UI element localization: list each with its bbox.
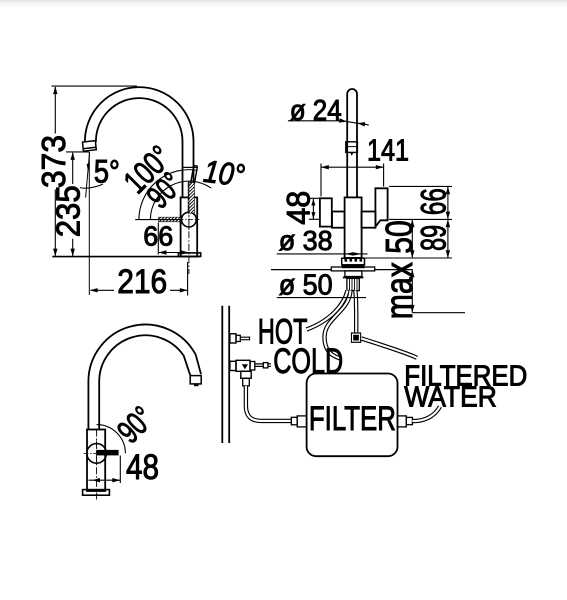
dim 216: arrow left bbox=[90, 288, 98, 292]
svg-text:48: 48 bbox=[126, 448, 159, 487]
front view: left arm neck bbox=[332, 212, 345, 228]
filter outlet fitting bbox=[398, 416, 407, 427]
front view: joint band midline bbox=[346, 146, 358, 148]
dim 235: extension tick top bbox=[66, 151, 89, 153]
right dims: extension line mid bbox=[389, 218, 452, 220]
dim o24: arrow right at tube left wall bbox=[339, 118, 347, 122]
bottom view: 90 degree arc bbox=[97, 425, 126, 454]
right dims: extension line bottom bbox=[365, 257, 452, 259]
bottom view: body bbox=[87, 430, 105, 492]
dim o38: underline leader bbox=[277, 253, 368, 255]
side view: lever horizontal position hatched bbox=[159, 217, 181, 222]
front view: swivel joint band bbox=[346, 142, 358, 153]
side view: handle ball joint bbox=[182, 212, 197, 227]
side view: 90 and 10 degree arc bbox=[150, 181, 211, 219]
dim 235: arrow up bbox=[71, 152, 75, 160]
dim 48 front: arrow up bbox=[311, 199, 315, 206]
side view: flow direction arrow bbox=[87, 164, 90, 173]
svg-text:WATER: WATER bbox=[404, 382, 497, 414]
bottom view: lever filled bbox=[97, 450, 119, 456]
svg-text:max 50: max 50 bbox=[379, 220, 421, 319]
side view: horizontal reference line bbox=[135, 219, 180, 221]
front view: left handle knob bbox=[320, 198, 332, 226]
cold tee body bbox=[236, 360, 250, 371]
dim o50: underline leader bbox=[277, 297, 366, 299]
side view: lever vertical position hatched bbox=[188, 183, 194, 213]
svg-text:COLD: COLD bbox=[273, 342, 343, 381]
dim 216: right extension line bbox=[187, 262, 189, 296]
front view: hose inner whites bbox=[307, 291, 348, 330]
dim o24: arrow left at tube right wall bbox=[357, 122, 365, 126]
filtered hose from connector bbox=[361, 339, 417, 358]
svg-text:ø 38: ø 38 bbox=[279, 225, 333, 256]
dim 373: extension tick top bbox=[52, 85, 137, 87]
svg-text:66: 66 bbox=[415, 188, 454, 215]
side view: tube joint tick bbox=[183, 166, 198, 168]
front view: aerator housing bbox=[342, 258, 365, 265]
side view: ball crosshair bbox=[179, 209, 200, 230]
cold valve nut on wall bbox=[230, 361, 236, 370]
svg-text:141: 141 bbox=[367, 133, 409, 168]
front view: escutcheon plate bbox=[331, 267, 374, 271]
dim 66: arrow left bbox=[159, 250, 167, 254]
side view: centerline axis bbox=[188, 181, 190, 274]
dim 141: arrow right bbox=[376, 165, 384, 169]
svg-text:10°: 10° bbox=[202, 153, 247, 194]
bottom view: base flange bbox=[83, 490, 110, 496]
front view: counter line right bbox=[375, 269, 413, 271]
svg-text:ø 50: ø 50 bbox=[279, 270, 333, 302]
front view: dark seal band bbox=[342, 265, 365, 268]
filter outlet hose bbox=[412, 407, 440, 422]
wall line left bbox=[221, 306, 223, 443]
svg-text:5°: 5° bbox=[94, 154, 120, 190]
front view: right arm neck bbox=[362, 212, 376, 228]
filter box bbox=[307, 374, 398, 457]
bottom view: ball crosshair bbox=[84, 440, 110, 466]
dim 66: extension line bbox=[157, 223, 159, 255]
side view: aerator nozzle bbox=[83, 141, 97, 152]
hot stub pipe bbox=[240, 337, 249, 341]
side view: ground line bbox=[52, 256, 199, 258]
front view: counter line left bbox=[271, 269, 331, 271]
dim 235: arrow down bbox=[71, 249, 75, 257]
side view: 5 degree flow axis vertical bbox=[88, 152, 90, 295]
side view: spout gooseneck arc outer bbox=[85, 87, 194, 197]
tee bottom fitting bbox=[241, 371, 251, 378]
side view: base flange bbox=[178, 253, 200, 257]
filter inlet fitting bbox=[291, 417, 297, 425]
dim 66: arrow right bbox=[181, 250, 189, 254]
front view: filtered water tail hose bbox=[353, 291, 358, 333]
bottom view: gooseneck outer arc bbox=[88, 325, 201, 382]
svg-text:ø 24: ø 24 bbox=[290, 95, 342, 127]
dim 66: dimension line bbox=[158, 252, 189, 254]
svg-text:90°: 90° bbox=[110, 399, 161, 450]
front view: threaded shank bbox=[347, 278, 359, 290]
dim 141: left extension bbox=[320, 164, 322, 197]
side view: 100 degree arc bbox=[139, 170, 198, 220]
dim 48 front: arrow down bbox=[311, 212, 315, 219]
front view: hot supply hose bbox=[307, 291, 348, 330]
front view: inline connector bbox=[351, 332, 361, 343]
dim 216: arrow right bbox=[180, 288, 188, 292]
dim 66-89: arrows bbox=[446, 186, 450, 258]
bottom view: aerator nub bbox=[194, 384, 199, 386]
dim 48 bottom: extension line bbox=[119, 456, 121, 484]
dim 141: right extension bbox=[383, 164, 385, 187]
dim max50: bottom extension bbox=[412, 312, 465, 314]
dim 48 front: bracket bbox=[309, 198, 321, 219]
dim 235: dimension line bbox=[72, 153, 74, 256]
bottom view: gooseneck inner arc bbox=[99, 335, 190, 381]
hose tee to filter bbox=[246, 386, 291, 421]
bottom view: aerator box bbox=[190, 376, 201, 384]
svg-text:373: 373 bbox=[35, 135, 72, 188]
front view: spout tube with round cap bbox=[347, 89, 357, 197]
side view: faucet body bbox=[181, 197, 198, 256]
front view: joint triangle mark bbox=[350, 153, 353, 156]
bottom view: centerline bbox=[96, 430, 98, 501]
right dims: extension line top bbox=[389, 185, 452, 187]
side view: spout gooseneck arc inner bbox=[96, 98, 183, 197]
side view: 5 degree arc bbox=[80, 184, 103, 188]
dim o38: arrows outward bbox=[345, 252, 362, 255]
side view: lever tilted 10 degrees bbox=[191, 166, 198, 184]
hot valve on wall bbox=[230, 334, 236, 343]
dim 50: arrows bbox=[410, 219, 414, 312]
dim 50: dimension line bbox=[411, 219, 413, 312]
front view: locknut bbox=[345, 271, 362, 277]
front view: cold supply hose bbox=[325, 291, 351, 359]
dim o24: label underline leader bbox=[288, 121, 369, 125]
dim 373: arrow down bbox=[53, 249, 57, 257]
dim 66-89: dimension line bbox=[447, 186, 449, 258]
side view: 5 degree tilted flow line bbox=[86, 152, 90, 198]
dim 48 bottom: arrows bbox=[92, 478, 120, 482]
dim 216: dimension line bbox=[91, 289, 188, 291]
front view: right handle knob tilted bbox=[375, 188, 387, 226]
front view: locknut dark edge bbox=[343, 277, 364, 279]
dim 141: arrow left bbox=[321, 165, 329, 169]
front view: central body column bbox=[345, 197, 362, 258]
svg-text:216: 216 bbox=[117, 263, 167, 301]
dim 48 bottom: dimension line bbox=[89, 479, 121, 481]
cold tee triangle mark bbox=[242, 364, 248, 369]
cold stub pipe bbox=[255, 364, 263, 367]
svg-text:48: 48 bbox=[280, 191, 316, 225]
front view: shank threads bbox=[350, 278, 358, 290]
svg-text:FILTER: FILTER bbox=[309, 400, 396, 438]
bottom view: ball joint bbox=[87, 444, 107, 464]
bottom view: standpipe bbox=[88, 382, 99, 430]
dim 373: arrow up bbox=[53, 86, 57, 94]
dim 373: dimension line bbox=[54, 87, 56, 256]
dim 141: dimension line bbox=[321, 166, 384, 168]
svg-text:235: 235 bbox=[49, 185, 86, 237]
front view: housing dash row bbox=[345, 259, 363, 262]
cold right connector bbox=[250, 362, 255, 371]
wall line right bbox=[228, 306, 230, 443]
